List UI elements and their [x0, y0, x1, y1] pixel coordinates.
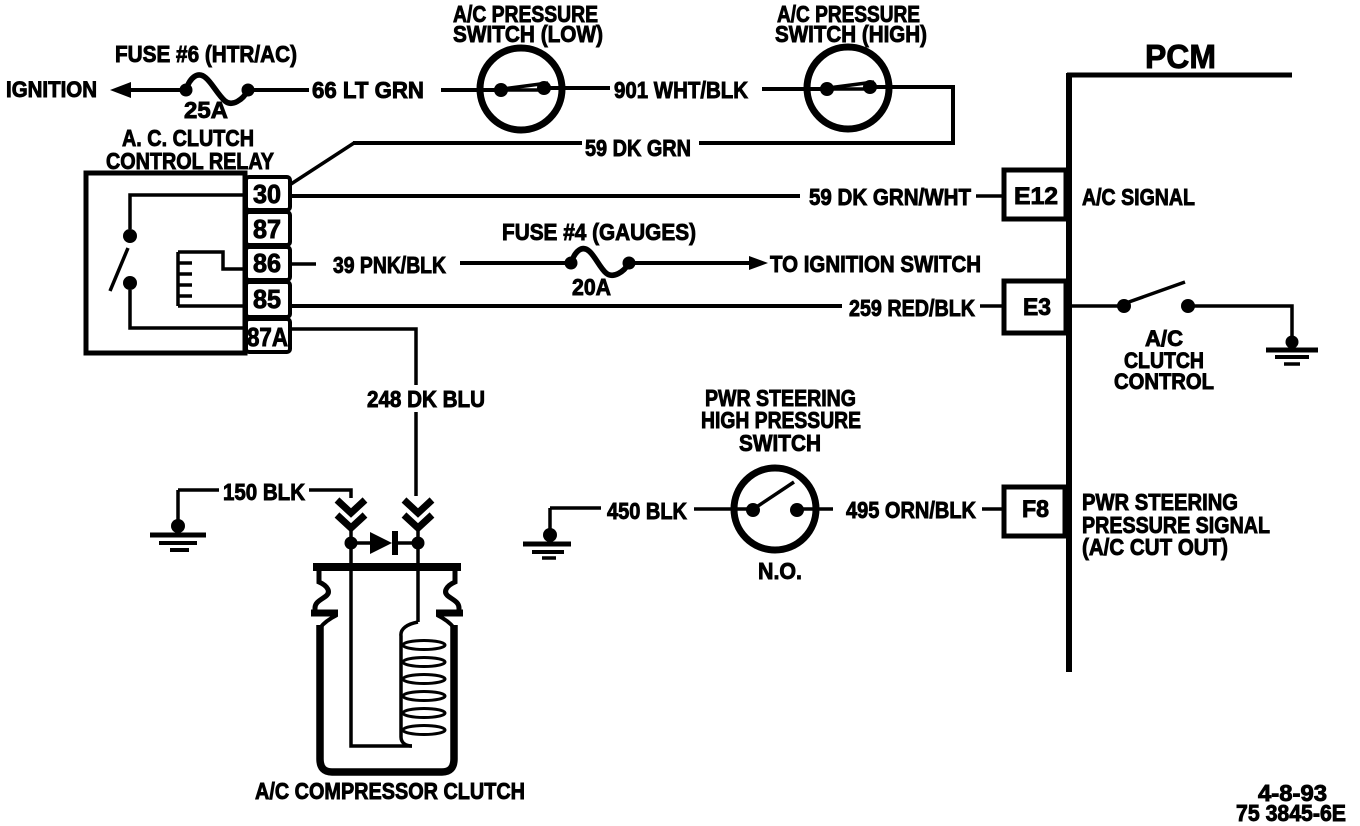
wire 66 LT GRN to low pressure switch — [441, 88, 501, 92]
svg-text:FUSE #6 (HTR/AC): FUSE #6 (HTR/AC) — [115, 41, 297, 67]
svg-text:PCM: PCM — [1145, 38, 1216, 75]
svg-text:39 PNK/BLK: 39 PNK/BLK — [333, 252, 446, 278]
wire left into clutch coil — [351, 549, 412, 746]
svg-text:450 BLK: 450 BLK — [607, 498, 687, 524]
svg-text:66 LT GRN: 66 LT GRN — [312, 77, 424, 103]
node junction left — [345, 537, 358, 550]
svg-text:86: 86 — [253, 248, 281, 278]
diode D1 — [357, 531, 412, 555]
svg-text:259 RED/BLK: 259 RED/BLK — [849, 295, 975, 321]
svg-text:248 DK BLU: 248 DK BLU — [367, 386, 485, 412]
wire PS switch to 495 ORN/BLK — [797, 507, 833, 511]
wire label 59 DK GRN/WHT — [809, 184, 971, 210]
svg-text:TO IGNITION SWITCH: TO IGNITION SWITCH — [770, 251, 981, 277]
svg-text:CONTROL RELAY: CONTROL RELAY — [106, 148, 274, 174]
svg-text:A/C SIGNAL: A/C SIGNAL — [1082, 184, 1195, 210]
svg-text:150 BLK: 150 BLK — [223, 479, 305, 505]
fuse F4 20A — [565, 249, 636, 276]
svg-text:IGNITION: IGNITION — [6, 77, 97, 102]
PCM vertical line — [1066, 73, 1072, 672]
relay pin 85 box — [246, 282, 290, 317]
ground G-PCM — [1266, 336, 1318, 365]
wire 59 DK GRN right segment — [699, 141, 955, 145]
wire label 248 DK BLU — [367, 386, 485, 412]
fuse F6 value 25A — [184, 97, 228, 123]
fuse F4 value 20A — [572, 274, 611, 300]
relay internal switch — [110, 195, 245, 328]
wire 450 BLK to PS switch — [694, 507, 753, 511]
wire label 901 WHT/BLK — [614, 77, 748, 103]
wire ground to 450 BLK — [550, 506, 601, 510]
svg-text:SWITCH (HIGH): SWITCH (HIGH) — [775, 21, 927, 47]
node IGNITION label — [6, 77, 97, 102]
A/C pressure switch (low) label — [453, 1, 603, 47]
A/C pressure switch (low) — [480, 48, 562, 130]
svg-text:59 DK GRN: 59 DK GRN — [585, 135, 691, 161]
wire label 450 BLK — [607, 498, 687, 524]
relay pin 86 box — [246, 247, 290, 280]
svg-text:59 DK GRN/WHT: 59 DK GRN/WHT — [809, 184, 971, 210]
relay K1 outer box — [86, 173, 245, 353]
svg-text:87A: 87A — [247, 322, 288, 352]
connector C1 (inline, left) — [337, 500, 365, 538]
wire pin85 to E3 left segment — [290, 304, 842, 308]
wire fuse to 66 LT GRN — [251, 88, 309, 92]
PCM terminal E12 — [1004, 170, 1066, 219]
PCM label — [1145, 38, 1216, 75]
connector C2 (inline, right) — [404, 500, 432, 538]
svg-text:495 ORN/BLK: 495 ORN/BLK — [846, 497, 976, 523]
PWR STEERING PRESSURE SIGNAL label — [1082, 489, 1270, 560]
A/C SIGNAL label — [1082, 184, 1195, 210]
wire pin87A to 248 DK BLU — [290, 329, 416, 385]
wire 59 DK GRN left segment — [353, 141, 582, 145]
clutch coil L1 — [401, 622, 445, 746]
fuse F6 label — [115, 41, 297, 67]
relay label A.C. CLUTCH CONTROL RELAY — [106, 125, 274, 174]
relay coil — [178, 252, 245, 306]
fuse F6 25A — [180, 75, 255, 103]
svg-text:F8: F8 — [1022, 496, 1049, 523]
svg-text:N.O.: N.O. — [758, 558, 802, 584]
doc number 75 3845-6E — [1236, 800, 1346, 826]
svg-text:85: 85 — [253, 284, 281, 314]
wire right into clutch coil — [416, 549, 420, 622]
PCM terminal E3 — [1004, 281, 1066, 333]
relay pin 87 box — [246, 212, 290, 245]
svg-text:901 WHT/BLK: 901 WHT/BLK — [614, 77, 748, 103]
compressor clutch jar body — [311, 567, 463, 772]
relay pin 30 box — [246, 177, 290, 210]
compressor clutch label — [255, 778, 525, 804]
PS high pressure switch label — [701, 385, 861, 456]
wire fuse F4 to ignition switch arrow — [633, 256, 768, 270]
ground G450 — [523, 508, 571, 558]
wire arrow to IGNITION — [110, 82, 186, 98]
wire 901 WHT/BLK to high pressure switch — [762, 87, 827, 91]
node junction right — [412, 537, 425, 550]
wire label 66 LT GRN — [312, 77, 424, 103]
wire label 59 DK GRN — [585, 135, 691, 161]
wire low switch to 901 WHT/BLK — [543, 86, 610, 90]
PS switch N.O. label — [758, 558, 802, 584]
svg-text:A/C COMPRESSOR CLUTCH: A/C COMPRESSOR CLUTCH — [255, 778, 525, 804]
wire label 495 ORN/BLK — [846, 497, 976, 523]
svg-text:E3: E3 — [1023, 294, 1051, 321]
date note 4-8-93 — [1258, 780, 1327, 806]
wire high switch to corner — [869, 87, 953, 143]
svg-text:75 3845-6E: 75 3845-6E — [1236, 800, 1346, 826]
svg-text:E12: E12 — [1014, 183, 1058, 210]
wire label 259 RED/BLK — [849, 295, 975, 321]
svg-text:SWITCH (LOW): SWITCH (LOW) — [453, 21, 603, 47]
svg-text:20A: 20A — [572, 274, 611, 300]
wire ground to 150 BLK — [178, 488, 219, 492]
wire 59 DK GRN/WHT to E12 — [976, 194, 1004, 198]
svg-text:CONTROL: CONTROL — [1114, 369, 1214, 394]
wire label 39 PNK/BLK — [333, 252, 446, 278]
relay pin 87A box — [246, 319, 290, 352]
wire PCM switch to ground — [1188, 306, 1292, 336]
svg-text:25A: 25A — [184, 97, 228, 123]
wire 150 BLK to connector — [309, 490, 351, 498]
PS high pressure switch — [734, 468, 816, 550]
wire 248 DK BLU vertical — [414, 412, 418, 496]
PCM terminal F8 — [1004, 487, 1065, 536]
A/C pressure switch (high) — [807, 47, 889, 129]
node TO IGNITION SWITCH label — [770, 251, 981, 277]
wire label 150 BLK — [223, 479, 305, 505]
svg-text:30: 30 — [253, 179, 281, 209]
svg-text:87: 87 — [253, 214, 281, 244]
wire 495 ORN/BLK to F8 — [982, 507, 1004, 511]
wire pin86 stub — [290, 262, 316, 266]
PCM internal switch — [1117, 282, 1195, 313]
PCM top bar — [1067, 73, 1292, 78]
wire 259 RED/BLK to E3 — [980, 304, 1004, 308]
ground G150 — [150, 490, 206, 550]
svg-text:FUSE #4 (GAUGES): FUSE #4 (GAUGES) — [502, 219, 696, 245]
svg-text:(A/C CUT OUT): (A/C CUT OUT) — [1082, 534, 1228, 560]
wire 39 PNK/BLK to fuse F4 — [460, 261, 571, 265]
svg-text:SWITCH: SWITCH — [739, 430, 821, 456]
A/C CLUTCH CONTROL label — [1114, 326, 1214, 394]
wire pin30 to E12 left segment — [290, 194, 800, 198]
fuse F4 label — [502, 219, 696, 245]
A/C pressure switch (high) label — [775, 1, 927, 47]
wire diagonal to relay pin 30 — [291, 143, 354, 184]
PCM internal switch wire — [1066, 304, 1124, 308]
